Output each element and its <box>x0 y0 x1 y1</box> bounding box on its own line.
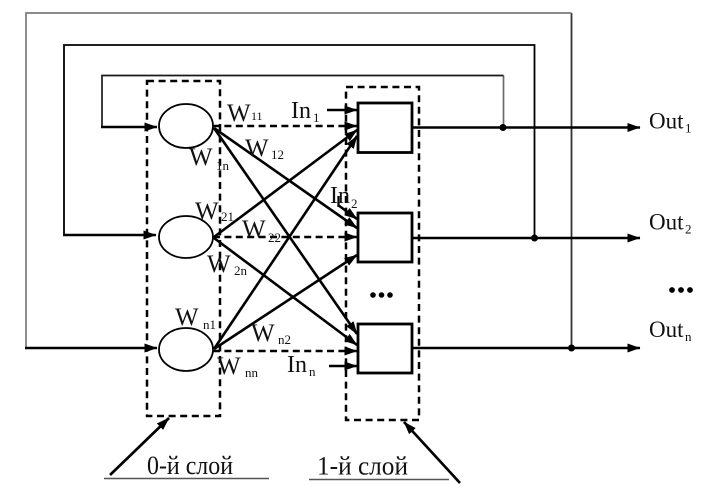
feedback loop B (Out2 to neuron 2) <box>64 45 535 235</box>
svg-text:In: In <box>330 183 350 209</box>
neuron ellipse 3 <box>159 328 213 371</box>
input arrow In2 <box>338 205 357 219</box>
feedback loop A vertical from Out1 junction <box>503 76 505 128</box>
neuron ellipse 2 <box>159 216 213 258</box>
svg-text:n1: n1 <box>203 317 216 332</box>
svg-text:n2: n2 <box>278 332 291 347</box>
wire arrow into neuron 1 <box>101 126 157 129</box>
layer 0 dashed box <box>147 81 220 416</box>
pointer arrow to layer 0 box <box>110 418 169 475</box>
svg-text:2: 2 <box>351 196 358 211</box>
junction dot on Out2 <box>531 235 538 242</box>
dashed weight wire W11 <box>213 125 357 128</box>
wire arrow into neuron 2 <box>63 234 156 237</box>
weight wire W2n neuron2 to square3 <box>214 238 357 345</box>
junction dot on Out1 <box>500 124 507 131</box>
svg-text:In: In <box>291 98 311 124</box>
svg-text:1: 1 <box>313 110 320 125</box>
weight wire Wn2 neuron3 to square2 <box>214 255 357 349</box>
square unit 3 <box>358 324 412 373</box>
junction dot on Outn <box>568 345 575 352</box>
svg-text:22: 22 <box>268 230 281 245</box>
svg-text:2: 2 <box>685 222 692 237</box>
neuron ellipse 1 <box>159 104 213 148</box>
weight wire W1n neuron1 to square3 <box>214 128 357 334</box>
svg-text:12: 12 <box>271 147 284 162</box>
input arrow In1 <box>327 109 357 112</box>
svg-text:W: W <box>242 216 266 243</box>
square unit 2 <box>358 213 412 262</box>
underline for 0-й слой <box>104 478 269 480</box>
svg-text:W: W <box>207 251 231 278</box>
svg-text:Out: Out <box>649 317 684 342</box>
svg-text:n: n <box>309 364 316 379</box>
ellipsis between squares <box>370 292 376 298</box>
svg-text:0-й слой: 0-й слой <box>147 451 233 480</box>
svg-text:n: n <box>685 329 692 344</box>
layer 1 dashed box <box>346 87 419 420</box>
weight wire W12 neuron1 to square2 <box>214 128 357 228</box>
dashed weight wire Wnn <box>213 350 357 353</box>
svg-text:W: W <box>245 135 269 162</box>
feedback loop C top and left wires <box>26 13 572 348</box>
pointer arrow to layer 1 box <box>404 422 460 483</box>
underline for 1-й слой <box>309 479 449 481</box>
svg-text:Out: Out <box>649 210 684 235</box>
input arrow In2 stem <box>337 196 339 207</box>
svg-text:1: 1 <box>685 121 692 136</box>
svg-text:W: W <box>189 144 213 171</box>
svg-text:W: W <box>251 320 275 347</box>
svg-text:W: W <box>227 100 251 127</box>
output wire Outn <box>412 347 640 350</box>
svg-text:In: In <box>287 352 307 378</box>
weight wire W21 neuron2 to square1 <box>214 130 357 237</box>
output wire Out2 <box>412 237 640 240</box>
weight wire Wn1 neuron3 to square1 <box>214 136 357 349</box>
svg-text:W: W <box>217 353 241 380</box>
input arrow Inn <box>329 365 357 368</box>
feedback loop C vertical from Outn junction <box>571 13 573 348</box>
wire arrow into neuron 3 <box>25 347 157 350</box>
svg-text:W: W <box>175 304 199 331</box>
svg-text:1n: 1n <box>216 158 230 173</box>
svg-text:W: W <box>195 198 219 225</box>
svg-text:Out: Out <box>649 109 684 134</box>
svg-text:2n: 2n <box>234 263 248 278</box>
square unit 1 <box>358 103 412 153</box>
feedback loop A top and left wires <box>102 76 504 128</box>
dashed weight wire W22 <box>213 236 357 239</box>
svg-text:11: 11 <box>251 109 263 123</box>
svg-text:21: 21 <box>221 209 234 224</box>
ellipsis between outputs <box>669 287 675 293</box>
output wire Out1 <box>412 126 640 129</box>
svg-text:nn: nn <box>245 365 259 380</box>
svg-text:1-й слой: 1-й слой <box>317 452 408 481</box>
